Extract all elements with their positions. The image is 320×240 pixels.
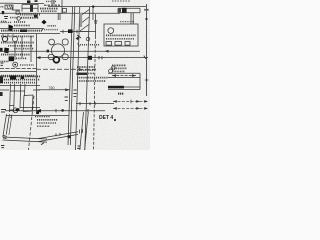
- wire: dimension line y31.5 x60-96: [60, 31, 96, 33]
- component: thick dark ring circle bottom: [54, 57, 60, 63]
- node: specks bottom-left corner: [1, 146, 4, 148]
- component: double vertical x58-60 below y13: [58, 13, 60, 20]
- component: vertical line x15: [14, 42, 16, 60]
- node: ticks on y110 line: [56, 109, 88, 112]
- component: ladder diagonal braces: [80, 10, 89, 32]
- node: dim band y4.5 x44-60: [44, 4, 60, 6]
- node: black blob (4,48): [4, 48, 9, 54]
- wire: line y90 left segments: [0, 89, 40, 91]
- label: faint top edge marks x112-130: [112, 0, 130, 2]
- node: specks below slanted pipes bottom: [77, 146, 80, 148]
- component: right edge long vertical: [146, 4, 148, 96]
- component: long pipe double vertical from top: [68, 7, 75, 145]
- node: marks near x95 y20: [94, 21, 97, 23]
- component: satellite circle top-left: [49, 39, 55, 45]
- node: marks at ladder bottom junction: [77, 32, 89, 38]
- component: small circle symbol (88,39): [86, 37, 90, 41]
- node: dark mark left edge y92-96: [0, 92, 3, 96]
- component: ladder gray fill strip: [80, 13, 83, 27]
- component: dashed vertical pipe x95 lower: [94, 36, 96, 150]
- node: dark bits (34,14): [34, 15, 38, 18]
- node: fence ticks below y33.6: [3, 34, 13, 37]
- label: tiny dim text above top edge x46-56: [46, 0, 56, 2]
- node: hatch at pipe bend left: [3, 135, 7, 138]
- component: vertical x62: [61, 0, 63, 14]
- node: marks below-left: [4, 17, 8, 19]
- node: arrowhead on y51 at x105: [105, 50, 109, 53]
- label: dense text band y29-32: [1, 30, 42, 32]
- node: dark rect in top bar: [122, 8, 127, 13]
- wire: dimension line y33.5 x0-60: [0, 33, 60, 35]
- component: lattice rung y91: [10, 90, 25, 92]
- label: dense text row y16-19 x20-40: [21, 17, 39, 19]
- node: marks bottom-left y108-114: [1, 110, 6, 113]
- node: marks left edge y62-66: [1, 63, 4, 65]
- wire: dashed line y69 x36-96: [36, 68, 96, 70]
- wire: line segment y86 right of dash: [124, 86, 140, 88]
- label: dense text band y24-27 left: [14, 25, 30, 27]
- label: text squiggle row 2: [41, 10, 57, 12]
- label: note text block right y64-74: [112, 64, 126, 66]
- component: dashed vertical slanted bottom-left: [29, 96, 35, 150]
- node: dark mark left edge y76-84: [0, 77, 3, 84]
- component: vertical line x36.5 long: [36, 34, 38, 114]
- label: note text row4: [37, 125, 50, 127]
- node: dark blob (20,76): [21, 76, 25, 79]
- node: dark text segment (76,72): [77, 73, 88, 75]
- component: lattice rung y105.6: [9, 105, 14, 107]
- label: dense text strip row2 center-right: [77, 80, 106, 82]
- node: arrow left end y57.5: [36, 56, 41, 59]
- label: dense text strip y76-83 center-right: [77, 77, 108, 79]
- node: center tick y101.4: [130, 100, 132, 104]
- wire: long line y110.5 x5-105: [5, 110, 105, 112]
- node: arrowheads y75.5: [112, 74, 136, 77]
- component: small valve symbol right edge top: [144, 9, 148, 11]
- node: tiny mark far right bottom: [114, 119, 116, 121]
- node: black dot left of note text: [36, 111, 39, 114]
- label: small text above rect top-right: [120, 21, 134, 23]
- node: slanted tick at right end of y57.6 line: [144, 56, 146, 59]
- wall section box top-left with hatch: [5, 5, 13, 9]
- wire: vertical x93: [92, 7, 94, 20]
- component: small box (62,8): [63, 9, 67, 13]
- label: note text block center row2: [77, 69, 96, 71]
- component: lattice rung y110: [9, 109, 14, 111]
- component: slanted bar pipe bottom line: [38, 134, 78, 141]
- component: double vertical pipe stub x52 top: [52, 0, 54, 4]
- label: (1) label below: [118, 93, 124, 95]
- label: note text row3: [112, 70, 125, 72]
- component: ladder column left rail (long slanted pipe): [76, 7, 80, 150]
- label: text row 2 inside rect: [106, 38, 134, 40]
- component: lattice vertical 3: [19, 84, 22, 108]
- wire: long horizontal line y13: [0, 12, 120, 14]
- node: arrowhead down-left at (77,36): [76, 36, 80, 41]
- node: junction specks on y103.5 line: [80, 102, 95, 105]
- component: bottom-left pipe bottom run top line: [3, 137, 47, 139]
- wire: top-left partial wall line: [0, 2, 14, 4]
- node: tick marks on pipe y96-102: [65, 97, 68, 101]
- component: pipe top run second line y115.5: [6, 115, 69, 117]
- component: extra slanted pipe line bottom middle: [80, 112, 84, 150]
- component: equipment rectangle right (104,24)-(138,46): [104, 24, 138, 46]
- label: dim text row y44.5 x80-100: [80, 44, 100, 46]
- component: double vertical drop from bar x131: [131, 13, 133, 24]
- component: big circle of pump cluster: [51, 44, 64, 57]
- wire: main horizontal line y51 across sheet: [0, 50, 140, 52]
- wire: short line right of wall box: [12, 9, 20, 11]
- component: vertical line x31: [30, 36, 32, 62]
- node: black blob symbol (8,24): [9, 25, 14, 32]
- component: lattice vertical 2: [13, 84, 16, 112]
- node: ticks at bar right end: [80, 129, 83, 134]
- component: bottom-left pipe left run outer: [3, 114, 7, 137]
- label: extra text specks y16-19 x10-18: [10, 17, 19, 19]
- component: circle (15,39): [12, 36, 17, 41]
- wire: dash arrow line y75.5 right: [112, 75, 136, 77]
- label: dense text row y12-15 x20-40: [20, 14, 40, 16]
- label: extra text specks top-left x0-18 y5-9: [1, 6, 5, 8]
- label: text specks y44-47: [8, 45, 32, 47]
- wire: horizontal line y28.5 x0-44: [0, 28, 44, 30]
- component: pump circle inside rect: [108, 28, 114, 34]
- node: small marks left of bar: [118, 9, 121, 13]
- node: specks right of pipe y89-97: [73, 90, 77, 96]
- label: dense text band y74-83 left block: [0, 75, 40, 77]
- wire: top line x20-40: [14, 2, 44, 4]
- component: small circle symbol in right note block: [111, 66, 115, 70]
- label: extra specks row y60-63 x0-10: [1, 60, 10, 62]
- node: dark blob (10,76): [10, 76, 16, 80]
- label: note text row2: [37, 119, 58, 121]
- node: dot on right vertical: [146, 18, 148, 20]
- wire: long line y103.5 x76-114: [76, 103, 114, 105]
- component: satellite rounded square top-right: [62, 39, 68, 45]
- component: nested lines right block y73-90: [108, 73, 140, 89]
- svg-text:760: 760: [49, 86, 55, 90]
- node: dot inside circle: [14, 64, 16, 66]
- label: note text block center row3: [77, 72, 94, 74]
- label: text row y53-56: [1, 54, 30, 56]
- label: extra specks row y47-50 x14-34: [14, 48, 34, 50]
- wire: dash arrow line y108.4 bottom right: [113, 107, 148, 109]
- wire: dash arrow line y101.4 bottom right: [113, 100, 148, 102]
- component: vertical line x22: [21, 36, 23, 58]
- node: black dash row y86-88 right: [108, 86, 124, 89]
- wire: horizontal line y85.5 left: [0, 85, 40, 87]
- component: small circle top-left: [17, 17, 21, 21]
- component: bottom-left pipe left run third line: [9, 115, 12, 136]
- node: junction dot on y110.5 line: [61, 109, 64, 112]
- component: slanted bar pipe top line: [38, 132, 78, 139]
- wire: vertical x95.5: [95, 14, 97, 36]
- node: dark tick cluster top edge: [27, 0, 30, 3]
- label: text row y29 x42-58: [42, 29, 58, 31]
- node: tick on y51 line left of cluster: [47, 50, 49, 53]
- component: small circle bottom-right of center block: [109, 69, 113, 73]
- component: black diamond symbol (44,22): [41, 20, 46, 25]
- component: tilted rectangle (24,95.5): [23, 95, 33, 112]
- node: tick at x80 y69: [79, 68, 81, 71]
- wire: line y107.5 x20-40: [20, 107, 40, 109]
- component: satellite rounded square bottom-right: [62, 54, 68, 60]
- component: dark double vertical in box: [30, 5, 33, 12]
- node: arrowheads y108.4: [113, 107, 148, 110]
- component: circle with dot (15,64.5): [13, 62, 18, 67]
- node: junction dot on y6.5 line: [92, 6, 94, 8]
- node: dark segments on y30.6 band: [20, 29, 27, 32]
- node: dark dot at riser: [15, 109, 17, 111]
- node: arrow tick under pipe x42: [41, 143, 44, 145]
- component: ladder column right rail (long slanted pipe): [85, 7, 90, 150]
- label: small text right of diamond: [48, 25, 57, 27]
- wire: dimension line y57.5 x36-148: [36, 57, 148, 59]
- node: marks above pipe x56-62: [56, 133, 60, 136]
- component: small boxes bottom of rect: [106, 42, 130, 46]
- component: bottom-left pipe left run inner: [6, 114, 9, 135]
- component: small box (16,11): [16, 11, 19, 14]
- component: satellite circle bottom-left: [48, 54, 54, 60]
- label: extra specks y21-23 x0-12: [1, 21, 13, 23]
- wire: arrow line y89.7 x38-69.5: [38, 89, 70, 91]
- component: riser circle top of bottom-left pipe: [13, 108, 18, 113]
- label: note text row2: [112, 67, 127, 69]
- label: dense text band y20-27 left: [1, 21, 26, 24]
- node: small black blob left edge: [2, 11, 4, 14]
- node: junction dark mark where vertical pipe meets bar: [68, 135, 71, 138]
- node: dark tick top edge 2: [35, 0, 38, 2]
- node: small cross right edge (146.5,80): [145, 78, 149, 82]
- label: note text block bottom-left: [35, 116, 50, 118]
- node: black mark left edge (0,48): [0, 48, 3, 52]
- wire: horizontal line y71.5 left: [0, 71, 36, 73]
- node: junction blob at (68,30): [68, 29, 73, 33]
- component: bottom-left pipe bottom run bottom line: [3, 140, 47, 142]
- label: dense text band y35-38 left: [1, 35, 34, 37]
- svg-text:DET 4: DET 4: [99, 115, 113, 121]
- component: lattice vertical 1: [9, 84, 12, 112]
- component: top-right double bar y8-13: [118, 8, 140, 13]
- label: dense text band row2 left block: [0, 79, 40, 81]
- component: lattice vertical 4: [24, 84, 27, 96]
- wire: horizontal line y68.5 left: [0, 68, 36, 70]
- node: arrowhead right end y89.7: [65, 88, 69, 91]
- node: tick left of dim row: [78, 43, 80, 46]
- node: ticks on y31.5 line: [63, 30, 77, 34]
- node: dark dot (18,109.5): [17, 108, 19, 111]
- component: extra slanted pipe line 2 bottom middle: [85, 112, 89, 150]
- label: text specks y40-46 left block: [1, 42, 34, 44]
- label: text right of blob y57: [16, 57, 27, 59]
- node: small black rect on line (88,56): [88, 56, 92, 60]
- label: note text row3: [37, 122, 56, 124]
- label: dense text band y74-78 left: [1, 75, 35, 77]
- label: text squiggle row y7-12 x40-58: [40, 8, 58, 10]
- label: text rows inside rect: [106, 34, 136, 36]
- label: note text block center y66-76: [77, 66, 95, 68]
- component: equipment box row (22,4)-(38,12): [22, 5, 38, 12]
- wire: long horizontal line y6.5 to right edge: [48, 6, 146, 8]
- label: extra specks row y64-66 x20-34: [20, 64, 34, 66]
- scan noise overlay: [0, 0, 150, 150]
- node: marks on y57.5 line at x98-104: [99, 56, 102, 59]
- node: dark arrow blob left end y110: [36, 109, 41, 113]
- component: ring circle (5,39): [2, 36, 7, 41]
- node: arrowheads y101.4: [113, 100, 148, 103]
- label: dense text band row3 left block: [0, 82, 38, 84]
- node: black blob (9,57): [9, 56, 14, 61]
